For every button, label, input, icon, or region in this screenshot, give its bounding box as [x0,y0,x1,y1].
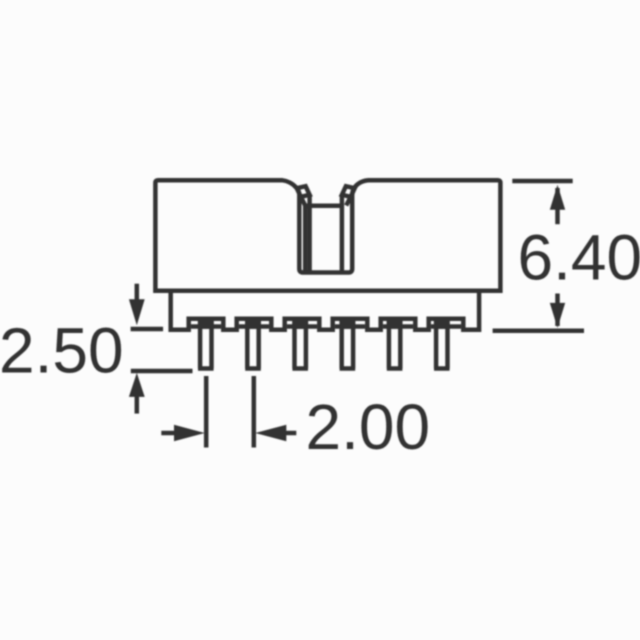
extension line pin2 center (2.00 right) [252,376,257,448]
dimension line 2.00 left shaft [161,431,176,436]
svg-text:2.50: 2.50 [0,315,124,387]
center post top edge [305,204,342,209]
pin 4 shoulder solid [340,317,356,329]
keying slot left wall inner edge [307,195,312,271]
pin 1 shoulder bar [191,324,221,329]
extension line left upper (2.50 upper) [131,327,164,332]
pin 3 shoulder solid [292,317,308,329]
pin 2 shoulder solid [245,317,261,329]
arrowhead 2.50 up [129,373,145,397]
keying slot right wall chamfer facet [342,186,355,197]
dimension line 6.40 upper shaft [555,188,560,224]
center post left edge [303,206,308,271]
keying slot right wall inner edge [340,195,345,271]
pin 4 stem [340,318,356,369]
extension line pin1 center (2.00 left) [204,376,209,448]
flange outline with pin notches [171,291,479,330]
extension line top right (6.40 upper) [512,179,572,184]
arrowhead 6.40 down [550,303,565,328]
keying slot right wall inner bevel edge [346,197,351,206]
pin 6 shoulder solid [434,317,450,329]
pin 5 shoulder solid [387,317,403,329]
pin 2 stem [245,318,261,369]
pin 6 stem [434,318,450,369]
dimension line 2.00 right shaft [284,431,296,436]
extension line left lower (2.50 lower) [131,369,193,374]
pin 5 shoulder bar [383,324,413,329]
connector body outline with top keying notch [155,180,500,291]
pin 3 shoulder bar [287,324,317,329]
keying slot left wall chamfer facet [297,186,310,197]
extension line bottom right (6.40 lower) [493,328,584,333]
arrowhead 6.40 up [550,185,565,210]
dimension line 2.50 upper shaft [135,284,140,301]
dimension line 6.40 lower shaft [555,294,560,327]
arrowhead 2.00 right [174,425,205,442]
svg-text:2.00: 2.00 [306,391,431,463]
arrowhead 2.50 down [129,299,145,325]
pin 3 stem [292,318,308,369]
pin 6 shoulder bar [431,324,461,329]
svg-text:6.40: 6.40 [518,221,640,293]
pin 1 stem [198,318,214,369]
pin 1 shoulder solid [198,317,214,329]
dimension line 2.50 lower shaft [135,395,140,414]
pin 4 shoulder bar [335,324,365,329]
arrowhead 2.00 left [255,425,286,442]
pin 5 stem [387,318,403,369]
pin 2 shoulder bar [239,324,269,329]
keying slot left wall inner bevel edge [301,197,305,206]
